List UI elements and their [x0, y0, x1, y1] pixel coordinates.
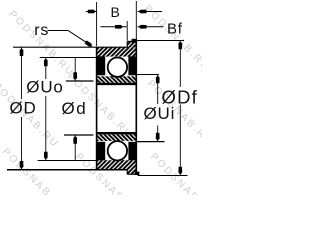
- D: [21, 47, 23, 99]
- Uo down: [44, 152, 48, 160]
- svg-text:Ød: Ød: [62, 99, 88, 118]
- svg-text:ØUo: ØUo: [26, 78, 63, 97]
- seal left bottom: [97, 142, 106, 161]
- flange left edge bottom: [126, 170, 128, 174]
- Ui down: [156, 133, 160, 141]
- Uo top ext: [40, 57, 97, 59]
- Df up: [178, 41, 182, 49]
- svg-text:rs: rs: [34, 22, 49, 39]
- B right ext: [135, 1, 137, 41]
- Uo up: [44, 58, 48, 66]
- Df top ext: [137, 40, 184, 42]
- flange bottom edge: [127, 173, 136, 175]
- flange top corner blob: [132, 39, 137, 43]
- d stubs: [74, 58, 76, 82]
- svg-text:B: B: [111, 4, 121, 20]
- d down (top stub): [73, 72, 77, 80]
- B arrows tails: [86, 11, 97, 13]
- Uo bottom ext: [38, 160, 97, 162]
- ball top: [108, 57, 127, 76]
- Df down: [178, 167, 182, 175]
- Bf flange-left ext: [126, 21, 128, 41]
- bore line top (thick): [97, 83, 137, 85]
- d up (bottom stub): [73, 136, 77, 144]
- seal left top: [97, 56, 106, 75]
- inner ring bottom section (hatched): [97, 134, 137, 141]
- Bf right arrow (points left at 137.7): [139, 25, 147, 29]
- outer ring top section (hatched): [97, 47, 137, 56]
- Bf left arrow (points right at 123.8): [115, 25, 123, 29]
- left face: [96, 47, 98, 170]
- flange bottom corner blob: [135, 172, 140, 175]
- Df: [179, 41, 181, 88]
- Ui bottom ext: [136, 141, 164, 143]
- flange top rect: [127, 41, 136, 47]
- arrowheads: [20, 10, 183, 175]
- Ui top ext: [136, 74, 159, 76]
- d bottom ext: [64, 134, 94, 136]
- seal right bottom: [128, 142, 136, 161]
- right face: [135, 41, 137, 175]
- rs arrow: [84, 40, 93, 48]
- seal right top: [128, 56, 136, 75]
- Bf arrows tails: [101, 26, 127, 28]
- D down: [20, 161, 24, 169]
- d top ext: [66, 80, 94, 82]
- Uo: [45, 58, 47, 80]
- flange left edge top: [126, 41, 128, 47]
- B left ext (above bearing): [96, 2, 98, 46]
- flange bottom rect: [127, 170, 136, 174]
- B left arrow (points right at 96.6): [88, 10, 96, 14]
- Ui up: [156, 75, 160, 83]
- ball bottom: [108, 141, 127, 160]
- bottom OD edge + left extension: [7, 169, 128, 171]
- inner ring top section (hatched): [97, 76, 137, 83]
- outer ring bottom section (hatched): [97, 160, 137, 170]
- watermark: [0, 3, 218, 221]
- svg-text:ØDf: ØDf: [162, 87, 199, 108]
- B right arrow (points left at 137.7): [139, 10, 147, 14]
- svg-text:Bf: Bf: [167, 21, 183, 38]
- Df bottom ext: [138, 175, 188, 177]
- rs leader: [48, 31, 91, 45]
- top OD edge + left extension: [13, 46, 128, 48]
- bore line bottom (thick): [97, 132, 137, 134]
- D up: [20, 48, 24, 56]
- svg-text:ØD: ØD: [10, 99, 37, 118]
- flange top edge: [127, 40, 136, 42]
- Ui: [157, 75, 159, 105]
